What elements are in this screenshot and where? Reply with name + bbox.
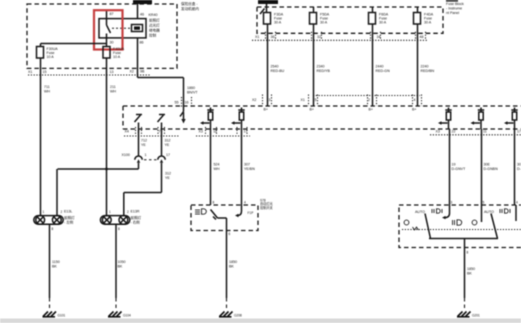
svg-text:BN/VT: BN/VT xyxy=(187,91,198,95)
svg-text:2: 2 xyxy=(127,210,129,214)
svg-text:G101: G101 xyxy=(58,314,66,318)
svg-text:2240: 2240 xyxy=(421,65,429,69)
svg-text:2340: 2340 xyxy=(317,65,325,69)
svg-text:48: 48 xyxy=(420,35,424,39)
svg-text:- 左侧: - 左侧 xyxy=(64,219,74,224)
svg-text:发动机舱内: 发动机舱内 xyxy=(181,6,199,11)
svg-text:1860: 1860 xyxy=(187,86,195,90)
svg-text:BK: BK xyxy=(467,271,472,275)
svg-text:X1: X1 xyxy=(255,35,259,39)
svg-text:WH: WH xyxy=(214,167,220,171)
svg-text:9B: 9B xyxy=(140,70,145,74)
svg-text:F1P: F1P xyxy=(248,211,254,215)
svg-text:BK: BK xyxy=(118,265,123,269)
svg-text:13: 13 xyxy=(110,70,114,74)
svg-text:Fuse Block: Fuse Block xyxy=(446,2,464,6)
svg-text:211: 211 xyxy=(110,85,116,89)
svg-text:30 A: 30 A xyxy=(379,21,387,25)
svg-text:X2: X2 xyxy=(252,98,256,102)
svg-text:1: 1 xyxy=(109,210,111,214)
svg-text:RED/YB: RED/YB xyxy=(317,69,331,73)
svg-text:X1: X1 xyxy=(301,98,305,102)
svg-text:BK: BK xyxy=(52,265,57,269)
svg-text:X3: X3 xyxy=(436,130,440,134)
svg-text:- Instrume: - Instrume xyxy=(446,7,462,11)
svg-text:近光灯: 近光灯 xyxy=(149,23,160,28)
svg-text:YE/BN: YE/BN xyxy=(244,167,255,171)
svg-text:YE: YE xyxy=(165,176,170,180)
svg-text:46: 46 xyxy=(140,13,144,17)
svg-text:10 A: 10 A xyxy=(113,55,121,59)
svg-text:1050: 1050 xyxy=(118,260,126,264)
svg-text:22: 22 xyxy=(452,130,456,134)
svg-text:G104: G104 xyxy=(123,314,131,318)
svg-text:16: 16 xyxy=(185,101,189,105)
svg-text:B+: B+ xyxy=(369,108,374,112)
svg-text:X100: X100 xyxy=(122,153,130,157)
svg-text:继电器: 继电器 xyxy=(149,28,160,33)
svg-text:5: 5 xyxy=(483,201,485,205)
svg-text:AUTO: AUTO xyxy=(484,210,494,214)
svg-text:RED-GN: RED-GN xyxy=(376,69,391,73)
svg-text:WH: WH xyxy=(44,90,50,94)
svg-text:87: 87 xyxy=(110,12,114,16)
svg-text:8: 8 xyxy=(118,227,120,231)
svg-text:55: 55 xyxy=(175,101,179,105)
svg-text:X1: X1 xyxy=(28,70,32,74)
svg-text:5: 5 xyxy=(315,98,317,102)
svg-text:6: 6 xyxy=(229,232,231,236)
svg-text:17: 17 xyxy=(517,130,521,134)
svg-text:E13R: E13R xyxy=(131,210,140,214)
svg-text:2540: 2540 xyxy=(271,65,279,69)
svg-text:1150: 1150 xyxy=(52,260,60,264)
svg-text:30: 30 xyxy=(110,41,114,45)
svg-text:3: 3 xyxy=(269,98,271,102)
svg-text:X4: X4 xyxy=(125,130,129,134)
svg-text:X2: X2 xyxy=(130,70,134,74)
svg-text:D-GNBN: D-GNBN xyxy=(484,167,499,171)
svg-text:YE: YE xyxy=(141,143,146,147)
svg-text:WH: WH xyxy=(110,90,116,94)
svg-text:2: 2 xyxy=(368,98,370,102)
svg-text:保险丝盒 -: 保险丝盒 - xyxy=(181,1,198,6)
svg-text:32: 32 xyxy=(317,35,321,39)
svg-text:B+: B+ xyxy=(310,108,315,112)
svg-text:4: 4 xyxy=(516,201,518,205)
svg-text:1850: 1850 xyxy=(229,260,237,264)
svg-text:30 A: 30 A xyxy=(274,21,282,25)
svg-text:BK: BK xyxy=(229,265,234,269)
svg-text:G201: G201 xyxy=(472,314,480,318)
svg-text:前照灯: 前照灯 xyxy=(64,215,75,220)
svg-text:4: 4 xyxy=(414,98,416,102)
svg-text:YE: YE xyxy=(165,143,170,147)
svg-text:3: 3 xyxy=(451,201,453,205)
svg-text:D-: D- xyxy=(517,167,521,171)
svg-text:1: 1 xyxy=(43,210,45,214)
svg-text:前照灯: 前照灯 xyxy=(149,18,160,23)
svg-text:KR40: KR40 xyxy=(149,13,158,17)
svg-text:X3: X3 xyxy=(199,130,203,134)
svg-text:8: 8 xyxy=(52,227,54,231)
svg-text:G208: G208 xyxy=(234,314,242,318)
svg-text:34: 34 xyxy=(377,35,381,39)
svg-text:B+: B+ xyxy=(264,108,269,112)
svg-text:nt Panel: nt Panel xyxy=(446,11,459,15)
svg-text:86: 86 xyxy=(140,41,144,45)
svg-text:17: 17 xyxy=(166,153,170,157)
svg-text:36: 36 xyxy=(271,35,275,39)
svg-text:30 A: 30 A xyxy=(424,21,432,25)
svg-text:控制开关: 控制开关 xyxy=(260,205,274,210)
svg-text:15: 15 xyxy=(43,70,47,74)
svg-text:11: 11 xyxy=(483,130,487,134)
svg-text:2: 2 xyxy=(61,210,63,214)
svg-text:711: 711 xyxy=(44,85,50,89)
svg-text:D-GNVT: D-GNVT xyxy=(452,167,467,171)
svg-text:前照灯: 前照灯 xyxy=(131,215,142,220)
svg-text:30 A: 30 A xyxy=(320,21,328,25)
svg-text:7: 7 xyxy=(159,130,161,134)
svg-text:RED-BU: RED-BU xyxy=(271,69,285,73)
svg-text:1: 1 xyxy=(145,153,147,157)
svg-text:1850: 1850 xyxy=(467,267,475,271)
svg-text:- 右侧: - 右侧 xyxy=(131,219,141,224)
svg-text:8: 8 xyxy=(213,201,215,205)
svg-text:E13L: E13L xyxy=(64,210,72,214)
svg-text:2440: 2440 xyxy=(376,65,384,69)
svg-text:AUTO: AUTO xyxy=(415,210,425,214)
svg-text:B+: B+ xyxy=(412,108,417,112)
svg-text:8: 8 xyxy=(467,251,469,255)
svg-text:10 A: 10 A xyxy=(47,55,55,59)
svg-text:4: 4 xyxy=(244,201,246,205)
svg-text:RED/BN: RED/BN xyxy=(421,69,435,73)
svg-text:控制: 控制 xyxy=(149,33,157,38)
